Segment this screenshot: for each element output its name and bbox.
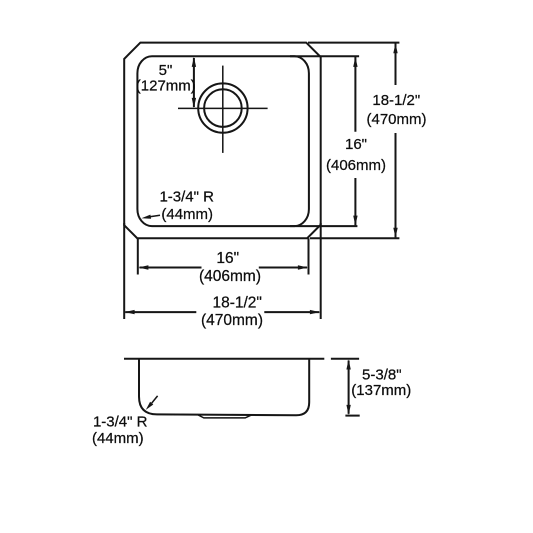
svg-text:(44mm): (44mm) bbox=[161, 206, 213, 223]
svg-text:(470mm): (470mm) bbox=[201, 312, 263, 329]
svg-text:(127mm): (127mm) bbox=[136, 77, 196, 94]
svg-text:(137mm): (137mm) bbox=[351, 382, 411, 399]
svg-text:1-3/4" R: 1-3/4" R bbox=[159, 189, 214, 206]
svg-text:5-3/8": 5-3/8" bbox=[362, 366, 402, 383]
svg-text:18-1/2": 18-1/2" bbox=[372, 92, 420, 109]
svg-text:1-3/4" R: 1-3/4" R bbox=[93, 413, 148, 430]
svg-text:16": 16" bbox=[345, 136, 367, 153]
svg-text:16": 16" bbox=[216, 250, 239, 267]
svg-text:(44mm): (44mm) bbox=[92, 430, 144, 447]
svg-text:(406mm): (406mm) bbox=[326, 157, 386, 174]
svg-text:18-1/2": 18-1/2" bbox=[212, 294, 261, 311]
svg-text:(470mm): (470mm) bbox=[366, 111, 426, 128]
svg-text:(406mm): (406mm) bbox=[199, 268, 261, 285]
